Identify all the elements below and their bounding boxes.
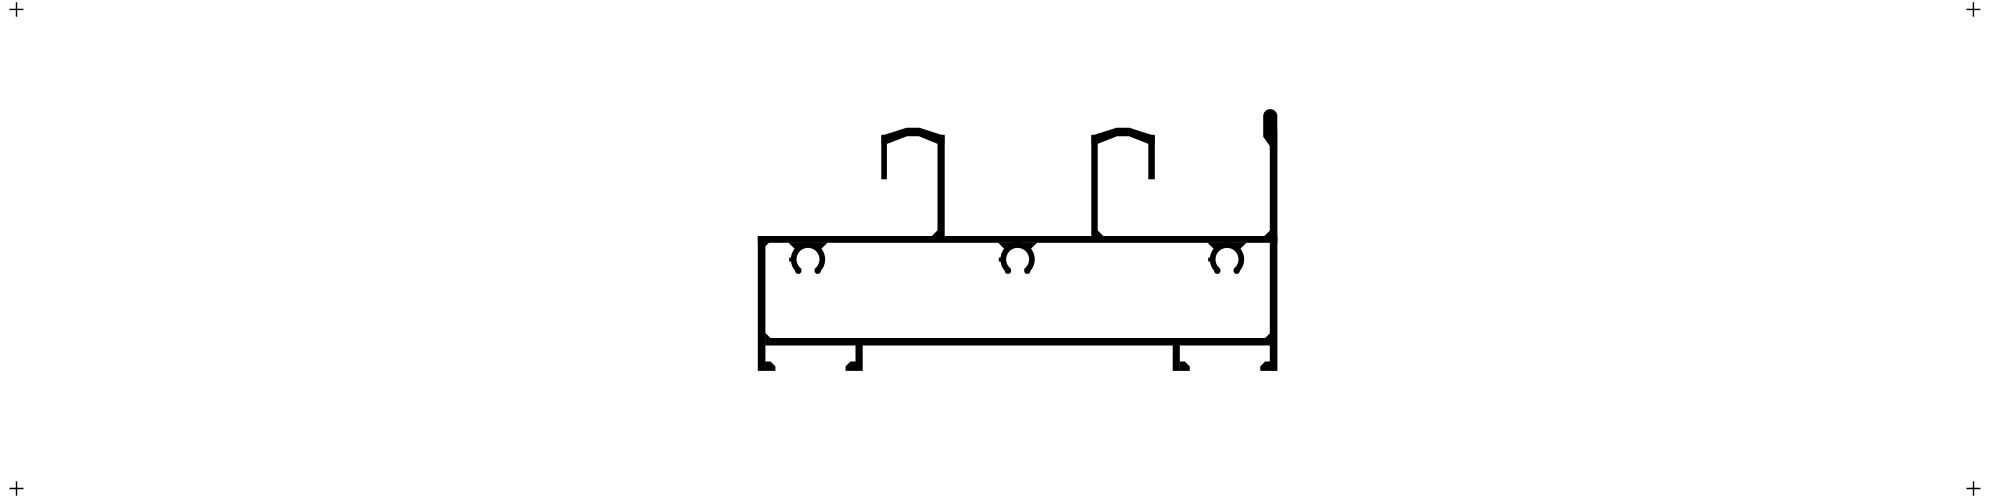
boss 2 outer ring [1000, 242, 1034, 276]
screw boss 1 (screw port under top plate) [789, 242, 828, 281]
boss 3 flare [1208, 243, 1247, 253]
foot B lip [846, 362, 856, 371]
hook 2 stem [1091, 135, 1097, 236]
hook 1 stem [938, 135, 945, 236]
left wall [758, 236, 766, 371]
hook 2 right leg [1148, 135, 1155, 180]
boss 2 bore (white) [1006, 248, 1029, 271]
registration mark bottom-left [10, 481, 24, 495]
hook 2 stem base fillet [1098, 230, 1104, 236]
top plate [758, 236, 1278, 243]
left wall bottom foot lip [765, 362, 775, 371]
screw boss 3 (screw port under top plate) [1208, 242, 1247, 281]
registration mark top-left [10, 2, 24, 16]
boss 2 jaw tips [1005, 268, 1011, 274]
boss 2 flare [998, 243, 1037, 253]
boss 2 mouth notch (white) [1002, 259, 1033, 281]
boss 1 flare [789, 243, 828, 253]
right bar bottom foot lip [1260, 362, 1270, 371]
right bar top blob [1263, 109, 1277, 150]
hook 1 left leg [881, 135, 887, 180]
bottom plate fillet at right bar [1265, 333, 1270, 338]
boss 1 bore (white) [797, 248, 820, 271]
foot C bar [1173, 346, 1180, 371]
registration mark top-right [1966, 2, 1980, 16]
right bar [1270, 130, 1278, 371]
boss 3 side nub [1208, 258, 1210, 262]
boss 2 side nub [999, 258, 1001, 262]
hook 1 arch [881, 128, 944, 144]
boss 1 jaw tips [795, 268, 801, 274]
boss 3 outer ring [1210, 242, 1244, 276]
top plate fillet at right bar [1264, 230, 1270, 236]
registration mark bottom-right [1967, 481, 1981, 495]
bottom plate [765, 338, 1270, 346]
foot B bar [856, 346, 863, 371]
boss 3 jaw tips [1214, 268, 1220, 274]
bottom plate fillet at left wall [765, 333, 770, 338]
boss 1 side nub [789, 258, 791, 262]
screw boss 2 (screw port under top plate) [998, 242, 1037, 281]
boss 1 mouth notch (white) [792, 259, 823, 281]
boss 1 outer ring [791, 242, 825, 276]
boss 3 bore (white) [1216, 248, 1239, 271]
hook 1 stem base fillet [932, 230, 938, 236]
top plate inner fillet at left wall [765, 243, 769, 247]
foot C lip [1180, 362, 1190, 371]
boss 3 mouth notch (white) [1211, 259, 1242, 281]
hook 2 arch [1091, 128, 1155, 144]
